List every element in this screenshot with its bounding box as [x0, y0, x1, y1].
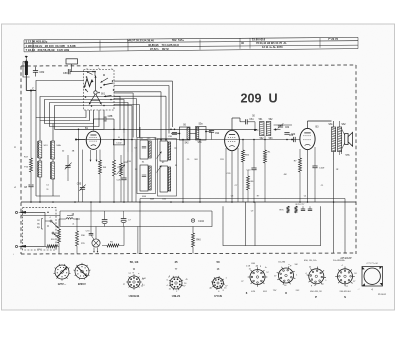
wire B1 electrodes [90, 150, 92, 162]
capacitor C95 [80, 188, 85, 190]
svg-text:50: 50 [216, 260, 220, 264]
svg-text:C89: C89 [63, 72, 68, 75]
resistor R55 [113, 160, 116, 176]
wire B3 cathode [307, 150, 309, 202]
svg-text:45: 45 [174, 260, 178, 264]
wire R93 [120, 155, 122, 163]
wire power misc [74, 202, 76, 211]
svg-text:U1CH41: U1CH41 [129, 294, 140, 298]
aerial coils S53 S54 [35, 118, 37, 197]
svg-text:C92: C92 [215, 133, 220, 135]
resistor R93 with arrow [120, 163, 123, 176]
wire vert left of tube [78, 129, 80, 202]
band switch SK1 [84, 70, 115, 111]
svg-text:C??-??+ M: C??-??+ M [367, 263, 378, 265]
fuse VL1 box [66, 59, 78, 64]
svg-text:g: g [223, 290, 224, 292]
svg-text:S: S [344, 295, 346, 299]
output transformer S65 [332, 127, 336, 152]
svg-text:P126.82: P126.82 [378, 294, 387, 296]
trimmer C90 [172, 133, 177, 135]
svg-text:g: g [311, 285, 312, 287]
resistor R58 [58, 229, 61, 243]
switch SK2 [50, 220, 52, 222]
HT box [223, 206, 321, 245]
svg-text:R(J: R(J [37, 227, 40, 229]
mains terminal bottom [15, 245, 17, 247]
wire loop E [55, 106, 133, 153]
wire y215 left [21, 215, 60, 217]
svg-text:2: 2 [144, 285, 145, 287]
speaker [345, 134, 348, 145]
aerial plug [25, 61, 29, 65]
tube B2 [225, 130, 240, 150]
svg-text:450, CE, 24+: 450, CE, 24+ [304, 260, 318, 262]
svg-text:12 11 4+ AL 2070: 12 11 4+ AL 2070 [262, 45, 283, 49]
svg-text:546,57,55,53,54,38,40: 546,57,55,53,54,38,40 [127, 39, 154, 43]
socket big2 [279, 268, 294, 283]
svg-text:UY1N: UY1N [214, 294, 221, 298]
wire B1 grid [76, 139, 85, 141]
resistor R57 [47, 245, 58, 248]
svg-text:45: 45 [186, 279, 188, 281]
wire loop B [40, 97, 120, 131]
chassis dashed outline [21, 65, 356, 66]
svg-text:C102: C102 [116, 143, 122, 145]
bus y129 [60, 128, 257, 130]
wire bus from switch [114, 80, 173, 82]
svg-text:4: 4 [166, 285, 167, 287]
svg-text:97,52 L R2 S!: 97,52 L R2 S! [150, 47, 169, 51]
capacitor C82 [33, 71, 38, 73]
resistor R74 [299, 158, 302, 172]
wire loop A [36, 81, 86, 118]
tube B1 [86, 131, 100, 149]
bus y139 junction dots [113, 139, 115, 141]
ground bus junction dots [30, 201, 32, 203]
svg-text:58, 1/3: 58, 1/3 [130, 260, 139, 264]
svg-text:76 04,44 H2 W1 04 76 AL: 76 04,44 H2 W1 04 76 AL [256, 41, 287, 45]
wire v245 [245, 202, 247, 246]
capacitor C70 [89, 234, 94, 236]
wire B2 down [231, 151, 233, 202]
resistor R59 [76, 231, 79, 246]
svg-text:46,86,96 70 1 H25,0C,8: 46,86,96 70 1 H25,0C,8 [148, 43, 179, 47]
wire loop D [50, 103, 129, 153]
svg-text:S42: S42 [184, 143, 189, 145]
svg-text:24C: 24C [296, 290, 300, 292]
IF2 can S60 S61 [158, 139, 177, 197]
resistor R61 [247, 176, 250, 190]
svg-text:4M: 4M [284, 174, 287, 176]
svg-text:44: 44 [144, 278, 146, 280]
svg-text:4: 4 [49, 217, 50, 219]
svg-text:S62: S62 [341, 123, 346, 126]
aerial terminal [25, 56, 28, 58]
wire IF3 [255, 129, 259, 131]
wire bus switch lower [114, 92, 133, 94]
svg-text:C68: C68 [289, 135, 294, 137]
svg-text:127V…: 127V… [58, 282, 67, 286]
capacitor C108 [251, 168, 256, 170]
svg-text:576: 576 [346, 154, 351, 157]
wire B2 anode [231, 118, 233, 130]
svg-text:S61: S61 [328, 123, 333, 126]
wire osc junctions [179, 133, 181, 135]
filter cap C106 [121, 219, 127, 221]
resistor R41 [192, 233, 195, 247]
svg-text:C109: C109 [319, 168, 325, 170]
voltage selector 127V [55, 265, 69, 279]
capacitor C88 [104, 116, 106, 121]
svg-text:C5+5M: C5+5M [278, 261, 285, 263]
ground bus [21, 201, 356, 203]
svg-text:S5a: S5a [198, 123, 203, 125]
scan paper texture [0, 0, 1, 1]
wire C84 down [30, 187, 32, 202]
svg-text:c: c [112, 68, 113, 70]
wire osc down [182, 140, 184, 202]
svg-text:C104: C104 [198, 220, 204, 223]
wire C88 right [106, 118, 114, 120]
voltage selector 220V [75, 265, 89, 279]
box C102 [113, 139, 124, 145]
svg-text:27: 27 [123, 284, 125, 286]
trimmer C85 [65, 166, 70, 168]
wire C89 to switch [94, 70, 96, 77]
resistor R62 [107, 244, 119, 247]
electrolytic can C113 [362, 267, 383, 287]
resistor R54 [99, 160, 102, 174]
capacitor C61 [246, 119, 248, 124]
svg-text:24+/420/44+: 24+/420/44+ [333, 260, 346, 262]
svg-text:R40: R40 [196, 240, 201, 242]
svg-text:R76 C77: R76 C77 [296, 204, 305, 206]
socket big1 [250, 270, 265, 285]
socket UF41 [170, 277, 182, 289]
svg-text:552 515+: 552 515+ [172, 38, 184, 42]
svg-text:C88: C88 [108, 114, 113, 118]
wire verticals mid [127, 152, 129, 202]
wire left coils bottom [36, 195, 60, 197]
svg-text:g: g [133, 272, 134, 274]
wire C95 [82, 150, 84, 188]
capacitor C68 [294, 137, 296, 142]
grid bus y139.5 [76, 139, 300, 141]
mains terminal top [15, 211, 17, 213]
svg-text:209 U: 209 U [240, 92, 277, 106]
svg-text:7 94,84 200,56,26,99 3 H5: 7 94,84 200,56,26,99 3 H5 H39 [26, 48, 70, 52]
svg-text:b: b [98, 68, 99, 70]
fuse 16 [66, 218, 73, 219]
filter cap C105 [102, 220, 108, 222]
socket P [309, 269, 324, 284]
svg-text:C61: C61 [249, 119, 254, 121]
resistor R56 [242, 150, 245, 162]
svg-text:C: C [174, 146, 176, 150]
lamp L60 [92, 239, 100, 247]
svg-text:g: g [290, 265, 291, 267]
svg-text:g: g [169, 276, 170, 278]
wire right verticals [333, 160, 335, 254]
wire aerial down [25, 75, 27, 91]
socket S [338, 269, 353, 284]
capacitor C84 [28, 185, 33, 187]
wire transformer [333, 121, 335, 127]
wire loop C [45, 100, 125, 134]
svg-text:g: g [260, 266, 261, 268]
wire B3 anode [307, 121, 309, 128]
resistors R75 R76 C77 [287, 206, 289, 213]
label C92 [209, 131, 214, 133]
trimmer arrows IF1 [157, 152, 162, 159]
label C60 [284, 133, 289, 135]
svg-text:U3L21: U3L21 [172, 294, 181, 298]
trimmer C62 [278, 125, 283, 127]
svg-text:C62: C62 [285, 127, 290, 129]
resistor R52 [30, 158, 33, 172]
svg-text:450 420, 5V: 450 420, 5V [310, 291, 322, 293]
socket UY41s [213, 278, 224, 289]
svg-text:220V.!!: 220V.!! [78, 282, 86, 286]
osc coil S57 [196, 126, 206, 140]
svg-text:P: P [315, 295, 317, 299]
svg-text:7* 20 76: 7* 20 76 [328, 37, 339, 41]
tube B3 [300, 128, 315, 149]
header data table [24, 37, 358, 40]
IF3 coils S62 S63 [260, 122, 265, 136]
svg-text:SK1: SK1 [101, 94, 106, 96]
osc coil S56 [179, 127, 190, 140]
svg-text:C95: C95 [77, 183, 82, 186]
wire R52 leads [30, 91, 32, 159]
capacitor C109 [312, 166, 317, 168]
bus y198 [140, 198, 345, 200]
bus y129 junction dots [78, 129, 80, 131]
capacitor C96 [121, 178, 126, 180]
capacitor C104 [191, 219, 194, 222]
power dashed box [23, 208, 56, 250]
socket UCH41 [128, 276, 140, 288]
IF1 can S58 S59 [137, 138, 156, 194]
capacitor C89 [68, 69, 70, 74]
svg-text:5M: 5M [295, 264, 298, 266]
svg-text:240 420 44: 240 420 44 [340, 291, 352, 293]
resistor R66 [264, 150, 267, 163]
svg-text:S4A: S4A [56, 144, 61, 147]
svg-text:C82: C82 [39, 70, 44, 74]
C104 box [60, 211, 212, 227]
wire junction C node [30, 90, 32, 92]
wire B1 top anode [93, 119, 95, 130]
wire mains vertical [44, 212, 46, 246]
